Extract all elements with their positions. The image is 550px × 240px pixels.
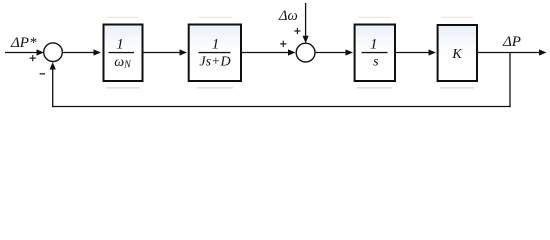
shadow dash above block 1/s bbox=[358, 17, 391, 18]
summing junction S1 bbox=[44, 43, 63, 62]
arrowhead into block G2 bbox=[180, 49, 188, 55]
shadow dash above block K bbox=[441, 17, 473, 18]
reflection dash below block G2 bbox=[197, 87, 233, 88]
fraction bar of block G3 bbox=[362, 52, 388, 53]
svg-text:ΔP*: ΔP* bbox=[10, 35, 37, 51]
svg-text:Js+D: Js+D bbox=[199, 55, 230, 70]
block G4: K bbox=[438, 25, 477, 81]
svg-text:1: 1 bbox=[370, 36, 378, 52]
arrowhead up into S1 bbox=[50, 62, 56, 70]
arrowhead into block 1/wN bbox=[94, 49, 102, 55]
arrowhead down into S2 bbox=[303, 36, 309, 44]
svg-text:ΔP: ΔP bbox=[502, 34, 521, 50]
wire block G2 to summing junction S2 bbox=[242, 52, 290, 54]
fraction bar of block G1 bbox=[109, 52, 135, 53]
wire feedback bottom run bbox=[52, 106, 511, 108]
arrowhead into block 1/s bbox=[346, 49, 354, 55]
svg-text:1: 1 bbox=[212, 36, 220, 52]
plus sign at S1 input bbox=[30, 55, 36, 61]
shadow dash above block 1/wN bbox=[107, 17, 139, 18]
wire output line bbox=[478, 52, 542, 54]
summing junction S2 bbox=[296, 43, 315, 62]
plus sign at S2 horizontal input bbox=[280, 41, 286, 47]
reflection dash below block 1/s bbox=[357, 87, 392, 88]
svg-text:s: s bbox=[373, 55, 379, 70]
minus sign at S1 feedback input bbox=[40, 73, 45, 75]
reflection dash below block K bbox=[440, 87, 474, 88]
wire feedback rise into S1 bbox=[52, 68, 54, 107]
arrowhead output bbox=[539, 49, 547, 55]
block G1: 1/wN bbox=[104, 25, 143, 82]
arrowhead into block K bbox=[429, 49, 437, 55]
arrowhead into S2 bbox=[288, 49, 296, 55]
wire block G3 to block K bbox=[396, 52, 431, 54]
block G2: 1/(Js+D) bbox=[189, 25, 241, 82]
wire input line into summing junction S1 bbox=[5, 52, 39, 54]
svg-text:1: 1 bbox=[116, 36, 124, 52]
fraction bar of block G2 bbox=[199, 52, 231, 53]
svg-text:Δω: Δω bbox=[278, 8, 298, 24]
wire Δω vertical into S2 bbox=[305, 3, 307, 38]
block G3: 1/s bbox=[355, 25, 395, 82]
svg-text:K: K bbox=[451, 47, 462, 62]
reflection dash below block 1/wN bbox=[106, 87, 140, 88]
wire feedback drop from output node bbox=[509, 53, 511, 108]
wire block G1 to block G2 bbox=[144, 52, 183, 54]
plus sign at S2 vertical input bbox=[294, 28, 300, 34]
arrowhead into S1 bbox=[37, 49, 45, 55]
wire S2 to block 1/s bbox=[315, 52, 348, 54]
shadow dash above block G2 bbox=[198, 17, 232, 18]
wire S1 to block 1/wN bbox=[62, 52, 96, 54]
